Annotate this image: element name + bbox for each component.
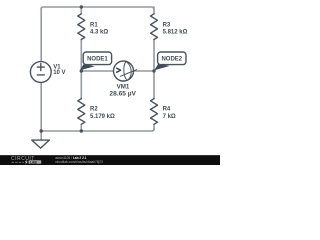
watermark logo CIRCUIT — [11, 156, 41, 165]
svg-text:R4: R4 — [163, 107, 171, 113]
label V1 name — [53, 65, 61, 71]
label R3 name — [163, 23, 171, 29]
svg-text:R2: R2 — [90, 107, 98, 113]
junction node A — [80, 69, 83, 72]
watermark credit line — [55, 156, 87, 160]
label R1 value — [90, 30, 108, 36]
wire left lower — [40, 82, 42, 131]
svg-text:28.65 µV: 28.65 µV — [109, 91, 136, 98]
svg-text:NODE2: NODE2 — [161, 57, 182, 63]
svg-text:VM1: VM1 — [117, 83, 130, 90]
svg-text:LAB: LAB — [30, 160, 37, 164]
resistor R4 — [151, 99, 158, 125]
wire R2 bottom stub — [80, 124, 82, 131]
junction top of R1 — [80, 5, 83, 8]
wire R3 to node B — [153, 39, 155, 98]
wire R1 top stub — [80, 7, 82, 14]
svg-text:5.812 kΩ: 5.812 kΩ — [163, 30, 188, 36]
label R4 name — [163, 107, 171, 113]
svg-text:R3: R3 — [163, 23, 171, 29]
node NODE2 flag — [154, 52, 186, 70]
label VM1 value — [109, 91, 136, 98]
svg-text:R1: R1 — [90, 23, 98, 29]
svg-text:4.3 kΩ: 4.3 kΩ — [90, 30, 108, 36]
wire R3 top stub — [153, 7, 155, 14]
node NODE1 flag — [80, 52, 112, 70]
wire top rail — [41, 7, 154, 9]
watermark bar — [0, 155, 220, 165]
label R2 name — [90, 107, 98, 113]
wire node A to VM1 — [81, 70, 113, 72]
voltmeter U1 VM1 — [114, 61, 137, 81]
svg-text:10 V: 10 V — [53, 70, 65, 76]
label VM1 name — [117, 83, 130, 90]
wire bottom rail — [41, 129, 154, 131]
junction bottom left — [40, 129, 43, 132]
voltage source V1 — [30, 62, 51, 83]
svg-text:5.179 kΩ: 5.179 kΩ — [90, 114, 115, 120]
svg-text:NODE1: NODE1 — [87, 57, 108, 63]
label R2 value — [90, 114, 115, 120]
wire R4 bottom stub — [153, 124, 155, 129]
wire left upper — [40, 8, 42, 62]
wire VM1 to node B — [134, 70, 155, 72]
label R3 value — [163, 30, 188, 36]
svg-text:7 kΩ: 7 kΩ — [163, 114, 176, 120]
wire R1 to node A — [80, 39, 82, 98]
label V1 value — [53, 70, 65, 76]
watermark url line — [55, 160, 103, 164]
voltmeter plus marker — [117, 68, 121, 72]
junction bottom of R2 — [80, 129, 83, 132]
svg-text:circuitlab.com/circuits/c6aab7: circuitlab.com/circuits/c6aab78j73 — [55, 160, 103, 164]
label R4 value — [163, 114, 176, 120]
label R1 name — [90, 23, 98, 29]
junction node B — [152, 69, 155, 72]
wire ground stub — [40, 131, 42, 140]
resistor R2 — [78, 99, 85, 125]
resistor R1 — [78, 14, 85, 40]
resistor R3 — [151, 14, 158, 40]
ground — [32, 140, 50, 148]
